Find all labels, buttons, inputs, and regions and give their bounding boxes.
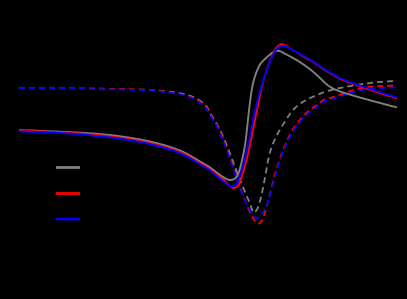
legend blue line: [56, 218, 80, 221]
dashed red curve: [19, 86, 397, 224]
dashed gray curve: [19, 81, 397, 212]
solid blue curve: [19, 46, 397, 187]
legend red line: [56, 192, 80, 195]
solid red curve: [19, 44, 397, 188]
legend gray line: [56, 166, 80, 169]
solid gray curve: [19, 51, 397, 180]
dashed blue curve: [19, 87, 397, 218]
